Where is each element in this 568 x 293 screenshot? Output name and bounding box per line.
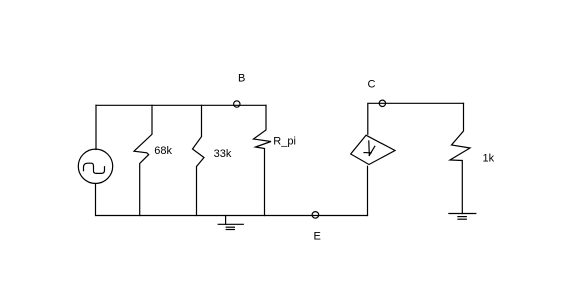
ground right	[449, 214, 476, 220]
node E	[312, 212, 319, 219]
dependent current source diamond	[351, 135, 395, 164]
ground left	[218, 216, 243, 230]
wire diamond bottom to rail	[367, 166, 369, 215]
resistor R_pi	[254, 105, 272, 215]
dependent source arrow	[364, 141, 375, 156]
wire bottom rail node E net	[96, 215, 368, 217]
svg-text:1k: 1k	[483, 153, 495, 165]
svg-text:68k: 68k	[154, 145, 172, 157]
AC source sine symbol	[84, 163, 105, 173]
svg-text:B: B	[238, 73, 245, 85]
wire diamond top to node C	[368, 103, 464, 134]
wire left vertical source top	[95, 105, 97, 149]
resistor 33k	[193, 105, 205, 215]
wire source bottom	[95, 184, 97, 216]
svg-text:E: E	[314, 231, 321, 243]
node B	[234, 101, 240, 107]
svg-text:33k: 33k	[214, 148, 232, 160]
AC source V1	[78, 149, 112, 183]
wire top rail node B net	[96, 104, 266, 106]
resistor 1k	[450, 103, 470, 213]
node C	[379, 100, 385, 106]
svg-text:R_pi: R_pi	[273, 136, 296, 148]
resistor 68k	[134, 105, 152, 215]
svg-text:C: C	[368, 79, 376, 91]
